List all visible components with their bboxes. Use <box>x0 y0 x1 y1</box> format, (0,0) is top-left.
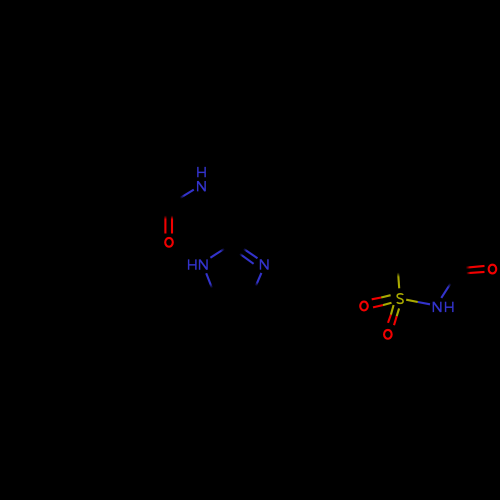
wire C2=N3 double bond, inner line <box>240 254 254 264</box>
sulfonyl O left label <box>360 302 368 311</box>
sulfonyl O down label <box>384 330 392 339</box>
wire N1-C5 half-bond <box>206 273 212 288</box>
wire S=O down double bond, right line yellow half <box>397 308 399 316</box>
wire S=O left double bond, upper line red half <box>372 298 381 300</box>
wire S-C half-bond <box>398 273 399 289</box>
wire S=O down double bond, right line red half <box>394 316 397 325</box>
imidazole N label (N3) <box>260 259 267 269</box>
wire C=O right double bond, upper red half <box>466 266 485 268</box>
wire S=O left double bond, upper line yellow half <box>381 295 391 297</box>
wire C=O right double bond, lower red half <box>466 272 484 273</box>
wire S=O left double bond, lower line yellow half <box>383 303 392 305</box>
right carbonyl O label <box>489 265 497 274</box>
wire N1-C2 half-bond <box>210 249 224 258</box>
wire S=O down double bond, left line yellow half <box>391 305 394 315</box>
wire S=O left double bond, lower line red half <box>373 305 383 307</box>
amide C=O double bond red halves <box>164 216 166 234</box>
wire C2=N3 double bond, outer line <box>244 249 258 258</box>
amide H label <box>198 167 205 177</box>
wire S-N bond blue half <box>418 302 430 304</box>
wire S-N bond yellow half <box>406 300 418 302</box>
wire S=O down double bond, left line red half <box>388 315 391 323</box>
wire NH-C half-bond <box>441 283 450 298</box>
wire N3-C4 half-bond <box>256 273 262 286</box>
wire N-C(=O) amide half-bond <box>180 190 194 198</box>
sulfonyl S label <box>397 294 403 304</box>
imidazole HN label (N1) <box>189 259 196 269</box>
amide O label <box>165 238 173 247</box>
sulfonamide NH label <box>433 302 440 312</box>
amide N label <box>198 181 205 191</box>
